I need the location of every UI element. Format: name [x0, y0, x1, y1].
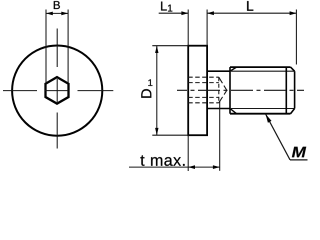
vertical centerline of front view: [56, 29, 58, 149]
dimension D1 line with arrows: [155, 46, 158, 136]
label M: [292, 147, 306, 158]
extension lines above head (L1, L): [188, 10, 296, 65]
neck (shank) outline: [207, 71, 230, 108]
label B: [54, 1, 60, 9]
M leader line with arrow: [266, 114, 308, 160]
D1 extension lines: [152, 46, 188, 136]
t max extension lines: [188, 101, 220, 171]
thread end face: [294, 71, 296, 108]
thread major diameter outline: [230, 67, 291, 114]
hex socket front view: [46, 77, 69, 104]
label t max: [140, 155, 184, 166]
thread end chamfer diagonals: [291, 67, 295, 114]
dimension B extension lines: [46, 10, 68, 84]
label D1 rotated: [141, 89, 151, 98]
head front view circle (D1): [12, 46, 102, 136]
screw head side view: [188, 46, 207, 136]
thread end chamfer line: [285, 67, 287, 114]
socket cone hidden diagonals: [219, 77, 227, 103]
dimension B line with arrows: [46, 12, 68, 16]
label L: [247, 1, 253, 11]
thread runout diagonals: [230, 67, 237, 114]
side view centerline: [177, 89, 304, 91]
dimension t max line with arrows: [129, 165, 220, 169]
horizontal centerline of front view: [3, 90, 113, 92]
hidden hex socket lines: [188, 77, 219, 103]
thread start vertical line: [229, 67, 231, 114]
dimension L1 line with arrow: [159, 11, 189, 15]
label L1: [161, 2, 172, 12]
socket cone base hidden line: [218, 77, 220, 103]
thread minor diameter thin lines: [230, 71, 295, 108]
dimension L line with arrows: [207, 11, 296, 15]
